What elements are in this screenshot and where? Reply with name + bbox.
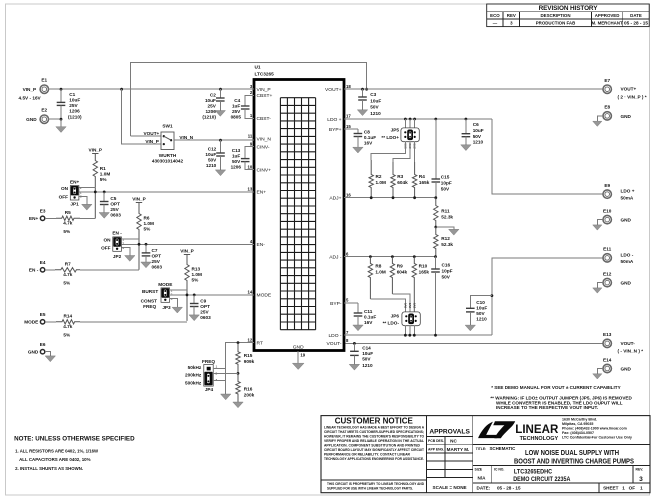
ground — [215, 111, 225, 117]
svg-text:EN-: EN- — [257, 242, 266, 248]
capacitor C8 — [344, 129, 376, 147]
svg-text:JP4: JP4 — [205, 387, 214, 392]
svg-text:APPLICATION. COMPONENT SUBSTI: APPLICATION. COMPONENT SUBSTITUTION AND … — [324, 444, 421, 448]
svg-text:0603: 0603 — [152, 265, 163, 270]
wire VOUT- net — [345, 342, 603, 344]
svg-text:R11: R11 — [441, 209, 450, 214]
svg-text:GND: GND — [621, 366, 632, 371]
ground — [141, 262, 151, 268]
svg-text:LDO -: LDO - — [621, 253, 634, 258]
terminal E3 EN+ — [29, 209, 46, 221]
svg-text:50V: 50V — [442, 275, 451, 280]
svg-text:19: 19 — [300, 353, 305, 358]
svg-text:50V: 50V — [362, 356, 371, 361]
capacitor C7 — [142, 244, 163, 269]
svg-text:E3: E3 — [40, 209, 46, 214]
resistor R10 — [412, 257, 429, 312]
svg-text:REV: REV — [507, 13, 516, 18]
resistor R14 — [45, 314, 80, 338]
svg-text:10uF: 10uF — [370, 99, 381, 104]
svg-text:1.0M: 1.0M — [100, 172, 111, 177]
svg-text:ECO: ECO — [490, 13, 500, 18]
svg-text:E8: E8 — [604, 105, 610, 110]
svg-text:5%: 5% — [192, 278, 200, 283]
resistor R5 — [45, 210, 80, 234]
capacitor C9 — [190, 295, 211, 320]
terminal E10 GND — [603, 208, 632, 223]
svg-text:E1: E1 — [41, 78, 47, 83]
svg-text:165k: 165k — [419, 270, 430, 275]
svg-text:10: 10 — [248, 164, 253, 169]
svg-text:C16: C16 — [442, 263, 451, 268]
svg-text:1210: 1210 — [206, 163, 217, 168]
svg-text:1.0M: 1.0M — [144, 221, 155, 226]
svg-text:16V: 16V — [364, 320, 373, 325]
svg-text:C6: C6 — [473, 122, 479, 127]
wire LDO+ net — [344, 118, 492, 120]
terminal E4 EN- — [29, 260, 46, 272]
svg-text:MODE: MODE — [158, 282, 172, 287]
resistor R12 — [434, 227, 454, 257]
svg-text:RT: RT — [257, 340, 263, 346]
svg-text:JP2: JP2 — [113, 254, 122, 259]
svg-text:50V: 50V — [441, 187, 450, 192]
svg-text:5%: 5% — [63, 281, 71, 286]
jumper JP2 EN- — [101, 231, 124, 259]
capacitor C10 — [466, 296, 492, 326]
svg-text:200k: 200k — [244, 393, 255, 398]
capacitor C2 — [202, 89, 224, 119]
svg-text:1.0M: 1.0M — [376, 180, 387, 185]
svg-text:C1: C1 — [69, 92, 75, 97]
note star footnotes — [490, 385, 632, 410]
svg-text:4.5V - 16V: 4.5V - 16V — [19, 95, 42, 100]
svg-text:C15: C15 — [441, 175, 450, 180]
svg-text:ON: ON — [103, 238, 111, 243]
svg-text:PRODUCTION FAB: PRODUCTION FAB — [536, 21, 576, 26]
capacitor C12 — [205, 140, 224, 170]
svg-text:EN+: EN+ — [70, 179, 80, 184]
jumper JP3 MODE — [141, 282, 173, 310]
svg-text:C9: C9 — [200, 299, 206, 304]
svg-text:52.3k: 52.3k — [441, 242, 453, 247]
svg-text:HOWEVER, IT REMAINS THE CUSTOM: HOWEVER, IT REMAINS THE CUSTOMER'S RESPO… — [324, 434, 424, 438]
svg-text:DESCRIPTION: DESCRIPTION — [540, 13, 570, 18]
svg-text:CBST+: CBST+ — [257, 93, 273, 99]
wire JP4 pin3 — [213, 379, 226, 381]
svg-text:NOTE: UNLESS OTHERWISE SPECIFI: NOTE: UNLESS OTHERWISE SPECIFIED — [14, 436, 135, 443]
svg-text:DATE: DATE — [630, 13, 642, 18]
ground — [593, 288, 602, 293]
svg-text:0.1uF: 0.1uF — [364, 315, 376, 320]
wire R11/R12 midpoint to ground — [436, 227, 454, 229]
terminal E1 VIN_P — [19, 78, 49, 101]
resistor R3 — [391, 162, 408, 198]
wire LDO- to E11 — [492, 258, 603, 335]
svg-text:* SEE DEMO MANUAL FOR VOUT ± C: * SEE DEMO MANUAL FOR VOUT ± CURRENT CAP… — [491, 385, 620, 390]
wire JP2 pin3 to ground — [121, 248, 129, 256]
svg-text:SW1: SW1 — [162, 124, 173, 129]
capacitor C11 — [344, 303, 376, 325]
resistor R1 — [93, 154, 110, 219]
resistor R4 — [412, 162, 429, 198]
svg-text:1630 McCarthy Blvd.: 1630 McCarthy Blvd. — [562, 418, 597, 422]
svg-text:E9: E9 — [604, 183, 610, 188]
terminal E2 GND — [26, 108, 48, 124]
capacitor C13 between CINV pins — [231, 147, 254, 170]
svg-text:5%: 5% — [63, 229, 71, 234]
wire MODE net — [170, 294, 254, 296]
svg-text:18: 18 — [346, 84, 351, 89]
wire JP5 to R3 — [393, 142, 410, 162]
svg-text:13: 13 — [248, 187, 253, 192]
svg-text:R4: R4 — [419, 174, 425, 179]
svg-text:C10: C10 — [476, 300, 485, 305]
svg-text:5%: 5% — [144, 227, 152, 232]
svg-text:R12: R12 — [441, 236, 450, 241]
capacitor C1 — [57, 89, 82, 119]
wire EN- net — [121, 243, 254, 245]
svg-text:5V0: 5V0 — [403, 303, 407, 309]
svg-text:R8: R8 — [375, 264, 381, 269]
wire JP5 to R2 — [371, 142, 405, 160]
svg-text:2. INSTALL SHUNTS AS SHOWN.: 2. INSTALL SHUNTS AS SHOWN. — [15, 466, 83, 471]
svg-text:DEMO CIRCUIT 2235A: DEMO CIRCUIT 2235A — [513, 476, 570, 483]
svg-text:4.7k: 4.7k — [63, 221, 73, 226]
svg-text:R7: R7 — [65, 262, 71, 267]
svg-text:OPT: OPT — [200, 304, 210, 309]
svg-text:INCREASE TO THE RESPECTIVE VOU: INCREASE TO THE RESPECTIVE VOUT INPUT. — [496, 405, 598, 410]
svg-text:CIRCUIT BOARD LAYOUT MAY SIGNI: CIRCUIT BOARD LAYOUT MAY SIGNIFICANTLY A… — [324, 448, 425, 452]
svg-text:10uF: 10uF — [205, 152, 216, 157]
terminal E9 LDO+ — [603, 183, 635, 201]
svg-text:ADJ -: ADJ - — [329, 254, 342, 260]
svg-text:BURST: BURST — [142, 289, 158, 294]
svg-text:ALL CAPACITORS ARE 0402, 10%: ALL CAPACITORS ARE 0402, 10% — [19, 457, 91, 462]
svg-text:M. MERCHANT: M. MERCHANT — [591, 21, 623, 26]
svg-text:25V: 25V — [152, 259, 161, 264]
svg-text:VOUT+: VOUT+ — [621, 87, 637, 92]
svg-text:C11: C11 — [364, 309, 373, 314]
resistor R7 — [45, 262, 80, 286]
capacitor C3 — [358, 89, 381, 116]
ground — [449, 229, 459, 235]
svg-text:TECHNOLOGY: TECHNOLOGY — [520, 436, 559, 442]
svg-text:1210: 1210 — [362, 363, 373, 368]
wire VOUT+ to SW1 loop — [131, 63, 367, 137]
jumper JP4 FREQ — [185, 359, 217, 392]
wire LDO- net — [344, 334, 492, 336]
svg-text:REVISION HISTORY: REVISION HISTORY — [539, 5, 599, 12]
Linear Technology logo — [478, 418, 632, 442]
resistor R8 — [368, 257, 386, 299]
svg-text:4.7k: 4.7k — [63, 324, 73, 329]
svg-text:REV.: REV. — [636, 467, 644, 471]
ground — [357, 110, 367, 116]
svg-text:1.0M: 1.0M — [375, 270, 386, 275]
svg-text:FREQ: FREQ — [202, 359, 215, 364]
svg-text:** LDO-: ** LDO- — [383, 320, 400, 325]
terminal E6 GND — [28, 342, 46, 354]
svg-text:1206: 1206 — [205, 109, 216, 114]
svg-text:OPT: OPT — [152, 254, 162, 259]
svg-text:R15: R15 — [244, 353, 253, 358]
svg-text:PCB DES.: PCB DES. — [428, 439, 444, 443]
wire R5 to EN+ node — [80, 217, 95, 219]
svg-text:1. ALL RESISTORS ARE 0402, 1%,: 1. ALL RESISTORS ARE 0402, 1%, 1/16W — [15, 448, 99, 453]
svg-text:CBST-: CBST- — [257, 116, 272, 122]
svg-text:SHEET 1 OF 1: SHEET 1 OF 1 — [603, 485, 643, 490]
wire E8 to ground — [597, 116, 603, 121]
terminal E14 GND — [603, 357, 632, 372]
svg-text:16: 16 — [346, 192, 351, 197]
svg-text:VIN_P: VIN_P — [180, 248, 194, 253]
wire ADJ- net — [344, 256, 436, 258]
svg-text:BYP-: BYP- — [330, 301, 342, 307]
ground — [45, 356, 55, 362]
svg-text:VIN_N: VIN_N — [257, 137, 272, 143]
svg-text:05 - 28 - 15: 05 - 28 - 15 — [624, 21, 649, 26]
ground — [99, 213, 109, 219]
svg-text:200kHz: 200kHz — [185, 373, 202, 378]
svg-text:10uF: 10uF — [476, 305, 487, 310]
svg-text:(1210): (1210) — [68, 114, 82, 119]
ground — [465, 325, 475, 331]
svg-text:PERFORMANCE OR RELIABILITY. C: PERFORMANCE OR RELIABILITY. CONTACT LINE… — [324, 453, 411, 457]
svg-text:R13: R13 — [192, 267, 201, 272]
svg-text:E10: E10 — [603, 208, 612, 213]
svg-text:CINV-: CINV- — [257, 144, 270, 150]
resistor R9 — [390, 257, 407, 294]
terminal E7 VOUT+ — [603, 78, 647, 100]
svg-text:MODE: MODE — [24, 320, 38, 325]
svg-text:GND: GND — [28, 349, 39, 354]
svg-text:25V: 25V — [110, 207, 119, 212]
svg-text:0603: 0603 — [200, 315, 211, 320]
svg-text:E13: E13 — [603, 332, 612, 337]
svg-text:EN+: EN+ — [29, 216, 39, 221]
ground — [189, 315, 199, 321]
ground — [461, 145, 471, 151]
svg-text:U1: U1 — [255, 64, 261, 69]
ground — [82, 204, 92, 210]
svg-text:25V: 25V — [69, 103, 78, 108]
jumper JP5 LDO+ — [381, 119, 419, 149]
wire E2 to C1 — [48, 118, 61, 120]
svg-text:C8: C8 — [364, 130, 370, 135]
ground — [593, 225, 602, 230]
svg-text:VIN_P: VIN_P — [89, 147, 103, 152]
svg-text:C5: C5 — [110, 196, 116, 201]
svg-text:APP ENG.: APP ENG. — [428, 447, 444, 451]
svg-text:E7: E7 — [604, 78, 610, 83]
svg-text:1uF: 1uF — [232, 154, 240, 159]
svg-text:NC: NC — [450, 439, 457, 444]
capacitor C5 — [100, 192, 121, 218]
svg-text:LINEAR TECHNOLOGY HAS MADE A B: LINEAR TECHNOLOGY HAS MADE A BEST EFFORT… — [324, 425, 425, 429]
svg-text:APPROVED: APPROVED — [595, 13, 620, 18]
svg-text:2V5: 2V5 — [412, 303, 416, 309]
svg-text:15: 15 — [346, 124, 351, 129]
svg-text:R2: R2 — [376, 174, 382, 179]
svg-text:50V: 50V — [370, 105, 379, 110]
wire JP2 pin1 to R6 — [121, 238, 139, 240]
svg-text:50mA: 50mA — [621, 195, 634, 200]
wire E12 to ground — [597, 283, 603, 288]
terminal E13 VOUT- — [603, 332, 643, 353]
ground — [353, 325, 363, 331]
svg-text:TITLE:: TITLE: — [476, 447, 487, 451]
jumper JP6 LDO- — [383, 303, 421, 326]
svg-text:E6: E6 — [40, 342, 46, 347]
svg-text:5%: 5% — [100, 177, 108, 182]
terminal E8 GND — [603, 105, 632, 120]
wire JP4 pin2 to R15/R16 junction — [213, 372, 238, 374]
svg-text:OFF: OFF — [101, 246, 111, 251]
svg-text:FREQ: FREQ — [143, 304, 156, 309]
svg-text:GND: GND — [621, 218, 632, 223]
svg-text:LTC3265EDHC: LTC3265EDHC — [514, 469, 552, 476]
wire R8 to JP6 — [370, 299, 405, 312]
svg-text:430301014042: 430301014042 — [152, 159, 184, 164]
svg-text:50mA: 50mA — [621, 259, 634, 264]
svg-text:DATE:: DATE: — [477, 485, 491, 490]
svg-text:E2: E2 — [41, 108, 47, 113]
svg-text:10uF: 10uF — [473, 128, 484, 133]
wire R7 to EN- node — [80, 269, 139, 271]
svg-text:LTC Confidential-For Customer: LTC Confidential-For Customer Use Only — [562, 435, 632, 439]
capacitor C14 — [350, 343, 373, 367]
jumper JP1 EN+ — [59, 179, 82, 206]
wire VIN_P main — [48, 88, 254, 90]
svg-text:C7: C7 — [152, 248, 158, 253]
svg-text:VOUT-: VOUT- — [327, 341, 342, 347]
svg-text:IC NO.: IC NO. — [494, 467, 504, 471]
svg-text:0805: 0805 — [231, 115, 242, 120]
svg-text:C4: C4 — [234, 98, 240, 103]
title block — [321, 416, 650, 493]
svg-text:VOUT+: VOUT+ — [144, 131, 160, 136]
svg-text:( - VIN_N ) *: ( - VIN_N ) * — [618, 348, 644, 353]
wire RT net — [226, 343, 254, 394]
svg-text:16V: 16V — [364, 141, 373, 146]
svg-text:THIS CIRCUIT IS PROPRIETARY TO: THIS CIRCUIT IS PROPRIETARY TO LINEAR TE… — [327, 482, 425, 486]
svg-text:JP1: JP1 — [70, 202, 79, 207]
svg-text:4.7k: 4.7k — [63, 272, 73, 277]
wire R14 to MODE node — [80, 321, 187, 323]
svg-text:1.0M: 1.0M — [192, 272, 203, 277]
svg-text:14: 14 — [248, 290, 253, 295]
wire VIN_N net — [174, 139, 254, 141]
ground — [593, 374, 602, 379]
ground — [349, 364, 359, 370]
svg-text:Fax: (408)434-0507: Fax: (408)434-0507 — [562, 431, 594, 435]
svg-text:R10: R10 — [419, 264, 428, 269]
svg-text:C14: C14 — [362, 345, 371, 350]
svg-text:E4: E4 — [40, 260, 46, 265]
svg-text:1210: 1210 — [473, 139, 484, 144]
note unless otherwise specified — [14, 436, 135, 471]
svg-text:VIN_P: VIN_P — [257, 87, 271, 93]
svg-text:EN+: EN+ — [257, 190, 267, 196]
svg-text:VIN_P: VIN_P — [23, 87, 37, 92]
svg-text:CINV+: CINV+ — [257, 167, 272, 173]
capacitor C16 — [431, 257, 452, 336]
svg-text:1uF: 1uF — [232, 104, 240, 109]
svg-text:C3: C3 — [370, 92, 376, 97]
svg-text:C2: C2 — [210, 92, 216, 97]
svg-text:GND: GND — [293, 344, 304, 350]
svg-text:R3: R3 — [397, 174, 403, 179]
svg-text:5%: 5% — [63, 333, 71, 338]
svg-text:LDO -: LDO - — [328, 333, 341, 339]
svg-text:BYP+: BYP+ — [329, 127, 342, 133]
svg-text:(1210): (1210) — [202, 114, 216, 119]
resistor R15 — [236, 343, 255, 374]
ground — [593, 121, 602, 126]
svg-text:JP6: JP6 — [391, 313, 400, 318]
svg-text:APPROVALS: APPROVALS — [429, 428, 470, 435]
svg-text:WURTH: WURTH — [159, 153, 177, 158]
svg-text:EN -: EN - — [29, 268, 39, 273]
U1 pin 19 GND stub — [297, 351, 299, 363]
svg-text:SCALE = NONE: SCALE = NONE — [433, 485, 467, 490]
svg-text:VOUT-: VOUT- — [621, 341, 636, 346]
switch SW1 — [144, 124, 184, 164]
svg-text:R14: R14 — [63, 314, 72, 319]
svg-text:CIRCUIT THAT MEETS CUSTOMER-SU: CIRCUIT THAT MEETS CUSTOMER-SUPPLIED SPE… — [324, 430, 424, 434]
wire SW1 VOUT+ input — [131, 135, 162, 137]
resistor R16 — [236, 373, 255, 402]
svg-text:JP3: JP3 — [162, 305, 171, 310]
ground — [292, 363, 304, 369]
svg-text:10uF: 10uF — [69, 98, 80, 103]
svg-text:Phone: (408)432-1900 www.lin: Phone: (408)432-1900 www.linear.com — [562, 426, 627, 430]
svg-text:0603: 0603 — [110, 213, 121, 218]
svg-text:TECHNOLOGY APPLICATIONS ENGINE: TECHNOLOGY APPLICATIONS ENGINEERING FOR … — [324, 457, 424, 461]
wire JP1 pin3 to ground — [79, 196, 87, 204]
ground — [233, 402, 243, 408]
svg-text:GND: GND — [621, 281, 632, 286]
svg-text:LDO +: LDO + — [621, 189, 635, 194]
svg-text:1210: 1210 — [370, 111, 381, 116]
svg-text:JP5: JP5 — [391, 128, 400, 133]
svg-text:1206: 1206 — [69, 109, 80, 114]
svg-text:ON: ON — [61, 186, 69, 191]
svg-text:ADJ+: ADJ+ — [329, 196, 341, 202]
resistor R11 — [434, 198, 454, 227]
svg-text:25V: 25V — [200, 310, 209, 315]
ground — [215, 170, 225, 176]
capacitor C6 — [462, 119, 484, 145]
wire JP1 pin1 to R1 — [79, 187, 95, 189]
wire E14 to ground — [597, 369, 603, 374]
svg-text:CONST: CONST — [141, 298, 158, 303]
terminal E5 MODE — [24, 312, 46, 324]
svg-text:25V: 25V — [232, 109, 241, 114]
svg-text:E12: E12 — [603, 271, 612, 276]
svg-text:10uF: 10uF — [362, 351, 373, 356]
resistor R2 — [369, 160, 386, 198]
svg-text:0.1uF: 0.1uF — [364, 135, 376, 140]
ground — [353, 147, 363, 153]
svg-text:52.3k: 52.3k — [441, 215, 453, 220]
wire VOUT+ net — [344, 88, 603, 90]
svg-text:SCHEMATIC: SCHEMATIC — [490, 446, 517, 451]
svg-text:E11: E11 — [603, 247, 611, 252]
wire JP6 pins to LDO- net — [404, 326, 406, 336]
svg-text:VERIFY PROPER AND RELIABLE OPE: VERIFY PROPER AND RELIABLE OPERATION IN … — [324, 439, 424, 443]
